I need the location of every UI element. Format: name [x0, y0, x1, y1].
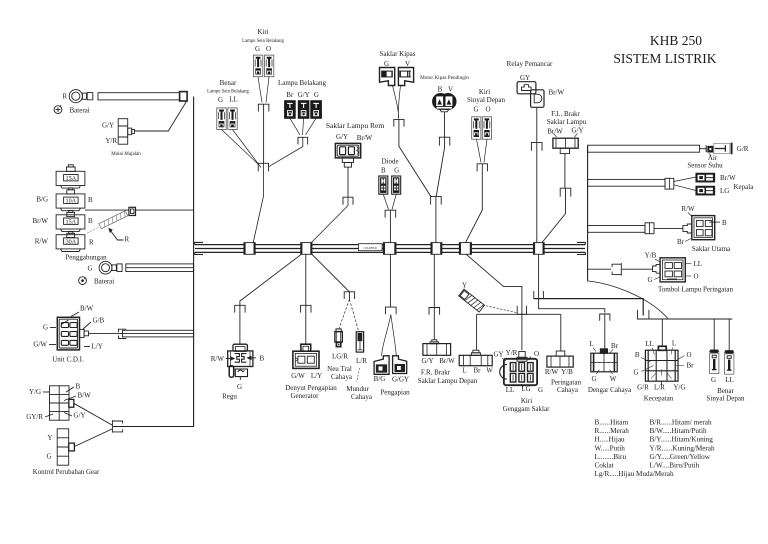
svg-text:Y/R: Y/R — [105, 137, 117, 145]
ground cable bar — [126, 264, 194, 272]
svg-text:Sensor Suhu: Sensor Suhu — [687, 161, 723, 169]
svg-text:Tombol Lampu Peringatan: Tombol Lampu Peringatan — [658, 285, 733, 293]
drop to peringatan cahaya — [560, 314, 562, 351]
horizontal wire to right corner — [534, 299, 643, 316]
fork2 (combined rear) — [258, 163, 268, 171]
svg-text:Lampu Sein Belakang: Lampu Sein Belakang — [242, 39, 284, 44]
svg-text:B/W: B/W — [80, 305, 94, 313]
svg-text:G: G — [237, 383, 242, 391]
wire J2 to Denyut generator — [305, 254, 307, 305]
svg-text:G: G — [255, 45, 260, 53]
right rear turn signal bulbs — [217, 108, 226, 130]
svg-text:W: W — [486, 367, 493, 375]
svg-text:F.L. Brakr: F.L. Brakr — [551, 110, 580, 118]
svg-text:Y: Y — [462, 282, 467, 290]
svg-text:B: B — [438, 86, 443, 94]
svg-text:B/G: B/G — [374, 375, 386, 383]
svg-text:O: O — [485, 106, 490, 114]
relay wire down to J6 — [536, 107, 538, 142]
wire J4 down to F.R. brake switch — [433, 254, 435, 307]
svg-text:LL: LL — [645, 340, 654, 348]
svg-text:G/GY: G/GY — [392, 376, 409, 384]
front left signal bulbs — [472, 117, 481, 139]
svg-text:B/R......Hitam/ merah: B/R......Hitam/ merah — [650, 419, 712, 427]
Denyut Pengapian Generator — [301, 344, 311, 351]
Peringatan Cahaya connector — [556, 351, 565, 356]
svg-text:Br: Br — [611, 342, 619, 350]
svg-text:Y/R......Kuning/Merah: Y/R......Kuning/Merah — [650, 444, 715, 452]
svg-text:LG/R: LG/R — [332, 353, 348, 361]
svg-text:H.....Hijau: H.....Hijau — [595, 436, 626, 444]
battery cable bar — [98, 93, 180, 100]
svg-text:Regu: Regu — [222, 392, 237, 400]
svg-text:Kiri: Kiri — [521, 397, 532, 405]
claw at kecepatan corner — [638, 310, 649, 319]
benar sinyal depan drops — [714, 319, 729, 351]
svg-text:L/R: L/R — [356, 357, 367, 365]
svg-text:L/W....Biru/Putih: L/W....Biru/Putih — [650, 462, 700, 470]
svg-text:30A: 30A — [65, 238, 76, 245]
wire from battery bar to starter connector — [134, 100, 187, 131]
svg-text:Br/W: Br/W — [439, 357, 455, 365]
svg-text:B/W: B/W — [78, 392, 92, 400]
svg-text:Br/W: Br/W — [32, 217, 48, 225]
wire J2 to neutral/reverse lamps — [312, 254, 350, 300]
svg-text:Denyut Pengapian: Denyut Pengapian — [285, 384, 337, 392]
svg-text:Lg/R.....Hijau Muda/Merah: Lg/R.....Hijau Muda/Merah — [595, 470, 674, 478]
svg-text:G/Y: G/Y — [298, 91, 310, 99]
Kecepatan connector — [658, 346, 666, 350]
fork3 — [298, 137, 308, 144]
svg-text:F.R. Brakr: F.R. Brakr — [421, 368, 451, 376]
Pengapian boot connectors — [374, 356, 389, 375]
F.R. Brakr Saklar Lampu Depan connector — [432, 340, 437, 342]
warning light switch wire — [588, 268, 653, 270]
svg-text:G/Y.....Green/Yellow: G/Y.....Green/Yellow — [650, 453, 711, 461]
svg-text:Coklat: Coklat — [595, 462, 614, 470]
svg-text:G: G — [314, 91, 319, 99]
air sensor connector — [705, 145, 707, 152]
svg-text:LL: LL — [506, 386, 515, 394]
tail light connectors — [285, 101, 295, 118]
svg-text:G: G — [473, 106, 478, 114]
svg-text:R: R — [125, 236, 130, 244]
svg-text:B......Hitam: B......Hitam — [595, 419, 629, 427]
svg-text:V: V — [448, 86, 453, 94]
svg-text:Cahaya: Cahaya — [557, 386, 579, 394]
svg-text:Diode: Diode — [381, 158, 398, 166]
svg-text:Br/W: Br/W — [549, 89, 565, 97]
svg-text:Penggabungan: Penggabungan — [65, 253, 107, 261]
svg-text:B: B — [260, 354, 265, 362]
Kontrol Perubahan Gear connector — [57, 429, 68, 465]
wire down — [263, 104, 265, 163]
svg-text:G: G — [591, 375, 596, 383]
harness junction J5 — [459, 243, 471, 255]
harness junction J6 — [533, 243, 544, 255]
Unit C.D.I connector — [57, 317, 79, 350]
svg-text:SISTEM LISTRIK: SISTEM LISTRIK — [613, 51, 716, 66]
svg-text:L: L — [672, 339, 676, 347]
svg-text:L: L — [589, 340, 593, 348]
wire J5 to handlebar group — [466, 254, 522, 350]
wire down + fork — [347, 167, 349, 196]
wires to headlight connectors — [674, 177, 696, 191]
svg-text:LL: LL — [229, 96, 238, 104]
harness junction J1 — [244, 243, 255, 255]
svg-text:G: G — [218, 96, 223, 104]
svg-text:15A: 15A — [65, 175, 76, 182]
wire J2 to Regu — [240, 254, 302, 305]
right trunk wire — [587, 145, 589, 281]
leads to fork3 — [290, 118, 316, 135]
svg-text:Sinyal Depan: Sinyal Depan — [707, 395, 745, 403]
svg-text:L/R: L/R — [654, 383, 665, 391]
Benar Sinyal Depan bulbs — [711, 350, 718, 353]
horizontal wire y=314.3 — [477, 313, 561, 315]
wire fork3 to fork2 — [269, 137, 303, 167]
trunk wire from battery bar down left side — [113, 97, 194, 427]
svg-text:Y/B: Y/B — [645, 251, 657, 259]
fuse 10A — [56, 194, 85, 208]
svg-text:Br/W: Br/W — [720, 174, 736, 182]
drop to saklar lampu depan — [476, 314, 478, 350]
svg-text:R: R — [89, 238, 94, 246]
fork — [258, 104, 269, 111]
fork at dengar cahaya — [600, 314, 610, 321]
svg-text:Lampu Sein Belakang: Lampu Sein Belakang — [207, 90, 249, 95]
claw on J6 wire — [534, 291, 544, 299]
brake switch connector — [335, 143, 360, 158]
battery symbol 2 — [79, 277, 87, 285]
svg-text:Br/W: Br/W — [547, 128, 563, 136]
svg-text:R/W: R/W — [211, 355, 225, 363]
svg-text:G/Y: G/Y — [74, 412, 86, 420]
svg-text:Y/G: Y/G — [673, 383, 685, 391]
svg-text:Neu Tral: Neu Tral — [327, 365, 352, 373]
wire kontrol to bracket — [74, 429, 112, 447]
svg-text:Sinyal Depan: Sinyal Depan — [467, 96, 505, 104]
starter relay connector (Mulai Majalah) — [118, 119, 128, 145]
twisted leads to fork — [393, 86, 401, 119]
svg-text:Saklar Utama: Saklar Utama — [692, 245, 731, 253]
left rear turn signal bulbs — [253, 55, 262, 77]
svg-text:Dengar Cahaya: Dengar Cahaya — [588, 386, 632, 394]
svg-text:G: G — [394, 166, 399, 174]
svg-text:G/Y: G/Y — [421, 357, 433, 365]
wire J3 to ignition coils — [389, 254, 391, 307]
svg-text:Mulai Majalah: Mulai Majalah — [111, 152, 141, 157]
svg-text:Y/R: Y/R — [506, 349, 518, 357]
svg-text:LG: LG — [720, 187, 729, 195]
harness junction J3 — [383, 243, 396, 255]
air temp sensor branch bar — [588, 145, 700, 152]
sweeping curve to kecepatan feed — [588, 281, 669, 319]
wire down with forks — [444, 112, 446, 138]
diode components — [379, 176, 388, 194]
svg-text:Br: Br — [677, 238, 685, 246]
harness junction J4 — [431, 243, 442, 255]
svg-text:L/Y: L/Y — [92, 343, 103, 351]
Tombol Lampu Peringatan connector — [653, 264, 661, 273]
svg-text:Saklar Lampu Depan: Saklar Lampu Depan — [418, 377, 478, 385]
svg-text:O: O — [694, 273, 699, 281]
svg-text:G/R: G/R — [737, 145, 749, 153]
svg-text:Unit C.D.I.: Unit C.D.I. — [52, 355, 84, 363]
wire to motor fork — [399, 119, 431, 197]
svg-text:GY/R: GY/R — [26, 413, 43, 421]
bar right end bracket — [577, 242, 585, 254]
main switch connector (Saklar Utama) — [683, 224, 692, 233]
svg-text:Kontrol Perubahan Gear: Kontrol Perubahan Gear — [33, 469, 100, 476]
front brake switch connector — [553, 138, 578, 148]
claw on genggam wire — [517, 306, 526, 315]
svg-text:Saklar Lampu Rem: Saklar Lampu Rem — [326, 121, 384, 130]
svg-text:L/Y: L/Y — [311, 372, 322, 380]
svg-text:1 DI-KFB-01: 1 DI-KFB-01 — [363, 247, 378, 250]
headlight connector lo — [696, 186, 715, 195]
svg-text:G/Y: G/Y — [571, 127, 583, 135]
svg-text:G/Y: G/Y — [102, 122, 114, 130]
svg-text:Br: Br — [474, 367, 482, 375]
wire to harness J1 — [253, 163, 263, 242]
svg-text:Kepala: Kepala — [734, 183, 755, 191]
svg-text:LL: LL — [725, 376, 734, 384]
svg-text:GY: GY — [493, 351, 503, 359]
svg-text:Cahaya: Cahaya — [331, 373, 353, 381]
svg-text:G: G — [87, 265, 92, 273]
svg-text:Kiri: Kiri — [257, 28, 268, 36]
svg-text:Kiri: Kiri — [479, 88, 490, 96]
svg-text:GY: GY — [520, 74, 530, 82]
svg-text:LL: LL — [694, 260, 703, 268]
svg-text:G: G — [43, 324, 48, 332]
svg-text:Lampu Belakang: Lampu Belakang — [278, 79, 327, 87]
svg-text:Br: Br — [286, 91, 294, 99]
svg-text:Saklar Lampu: Saklar Lampu — [547, 118, 587, 126]
svg-text:Motor Kipas Pendingin: Motor Kipas Pendingin — [420, 75, 469, 81]
svg-text:Benar: Benar — [220, 79, 237, 87]
svg-text:B: B — [722, 219, 727, 227]
kecepatan drop — [661, 319, 663, 346]
horizontal wire y=319 — [638, 318, 733, 320]
svg-text:R......Merah: R......Merah — [595, 427, 630, 435]
svg-text:O: O — [266, 45, 271, 53]
main switch branch bar — [588, 226, 645, 233]
svg-text:Baterai: Baterai — [70, 107, 90, 115]
wire J6 down through claw to corner — [539, 254, 605, 312]
Dengar Cahaya connector — [600, 349, 607, 353]
svg-text:Baterai: Baterai — [94, 278, 114, 286]
svg-text:L: L — [462, 367, 466, 375]
headlight connector hi — [696, 173, 715, 182]
svg-text:R/W: R/W — [681, 205, 695, 213]
svg-text:Generator: Generator — [291, 392, 320, 400]
svg-text:Br/W: Br/W — [357, 134, 373, 142]
svg-text:B: B — [635, 351, 640, 359]
svg-text:Genggam Saklar: Genggam Saklar — [503, 405, 551, 413]
leads to fork2 — [222, 130, 262, 168]
headlight switch connector L Br W — [473, 350, 479, 353]
svg-text:G/R: G/R — [637, 383, 649, 391]
fan motor round connector — [433, 93, 449, 109]
svg-text:Cahaya: Cahaya — [351, 393, 373, 401]
svg-text:Kecepatan: Kecepatan — [644, 394, 674, 402]
svg-text:Relay Pemancar: Relay Pemancar — [507, 60, 553, 68]
svg-text:Pengapian: Pengapian — [380, 388, 410, 396]
svg-text:Y/B: Y/B — [561, 368, 573, 376]
svg-text:B: B — [76, 383, 81, 391]
svg-text:G/Y: G/Y — [336, 133, 348, 141]
svg-text:B/G: B/G — [36, 196, 48, 204]
svg-text:15A: 15A — [65, 218, 76, 225]
harness label plate — [359, 244, 383, 251]
fuse 15A — [56, 171, 85, 185]
svg-text:LG: LG — [521, 385, 530, 393]
arrow R — [110, 230, 124, 240]
svg-text:G: G — [46, 453, 51, 461]
svg-text:R: R — [62, 93, 67, 101]
main harness bus bar — [195, 245, 585, 253]
svg-text:Y/G: Y/G — [29, 388, 41, 396]
svg-text:R/W: R/W — [545, 368, 559, 376]
battery symbol — [54, 106, 62, 114]
svg-text:G: G — [711, 376, 716, 384]
bar left end bracket — [195, 242, 203, 254]
Mundur Cahaya lamp — [356, 332, 363, 352]
svg-text:G/B: G/B — [93, 317, 105, 325]
CDI cable to trunk — [89, 333, 123, 335]
svg-text:G: G — [633, 368, 638, 376]
fuse 30A — [56, 235, 85, 249]
svg-text:B: B — [88, 217, 93, 225]
svg-text:Y: Y — [47, 434, 52, 442]
leads to fork — [383, 194, 396, 209]
svg-text:KHB 250: KHB 250 — [650, 33, 702, 48]
Regu (regulator) — [233, 344, 247, 351]
Kiri Genggam Saklar connector — [519, 352, 525, 359]
Neu Tral Cahaya lamp — [335, 332, 342, 342]
svg-text:B/Y......Hitam/Kuning: B/Y......Hitam/Kuning — [650, 436, 714, 444]
svg-text:O: O — [687, 351, 692, 359]
svg-text:B: B — [88, 196, 93, 204]
svg-text:G/W: G/W — [291, 372, 305, 380]
inline connector on fuse wire — [129, 207, 136, 215]
connector bracket (gear wires junction) — [112, 420, 122, 432]
gear switch connector — [50, 386, 70, 420]
wire down to J6 — [564, 154, 566, 189]
svg-text:W: W — [610, 375, 617, 383]
svg-text:10A: 10A — [65, 198, 76, 205]
svg-text:O: O — [534, 350, 539, 358]
svg-text:L........Biru: L........Biru — [595, 453, 627, 461]
svg-text:Br: Br — [687, 361, 695, 369]
fuse 15A — [56, 215, 85, 229]
svg-text:W.....Putih: W.....Putih — [595, 444, 626, 452]
spark plug cap (striped) — [99, 211, 128, 229]
harness junction J2 — [301, 243, 312, 255]
fan switch boot connectors — [380, 68, 395, 86]
headlight branch bar — [588, 179, 665, 186]
svg-text:G: G — [538, 386, 543, 394]
fuse box 15A — [67, 167, 76, 171]
leads to fork — [258, 77, 269, 103]
svg-text:G: G — [647, 276, 652, 284]
svg-text:Saklar Kipas: Saklar Kipas — [380, 50, 416, 58]
wire gear connector to bracket — [74, 403, 112, 425]
svg-text:B/W.....Hitam/Putih: B/W.....Hitam/Putih — [650, 427, 707, 435]
flasher relay — [517, 82, 536, 94]
wire fuse B to trunk — [85, 209, 194, 211]
svg-text:R/W: R/W — [35, 237, 49, 245]
svg-text:G/W: G/W — [33, 341, 47, 349]
svg-text:B: B — [381, 166, 386, 174]
